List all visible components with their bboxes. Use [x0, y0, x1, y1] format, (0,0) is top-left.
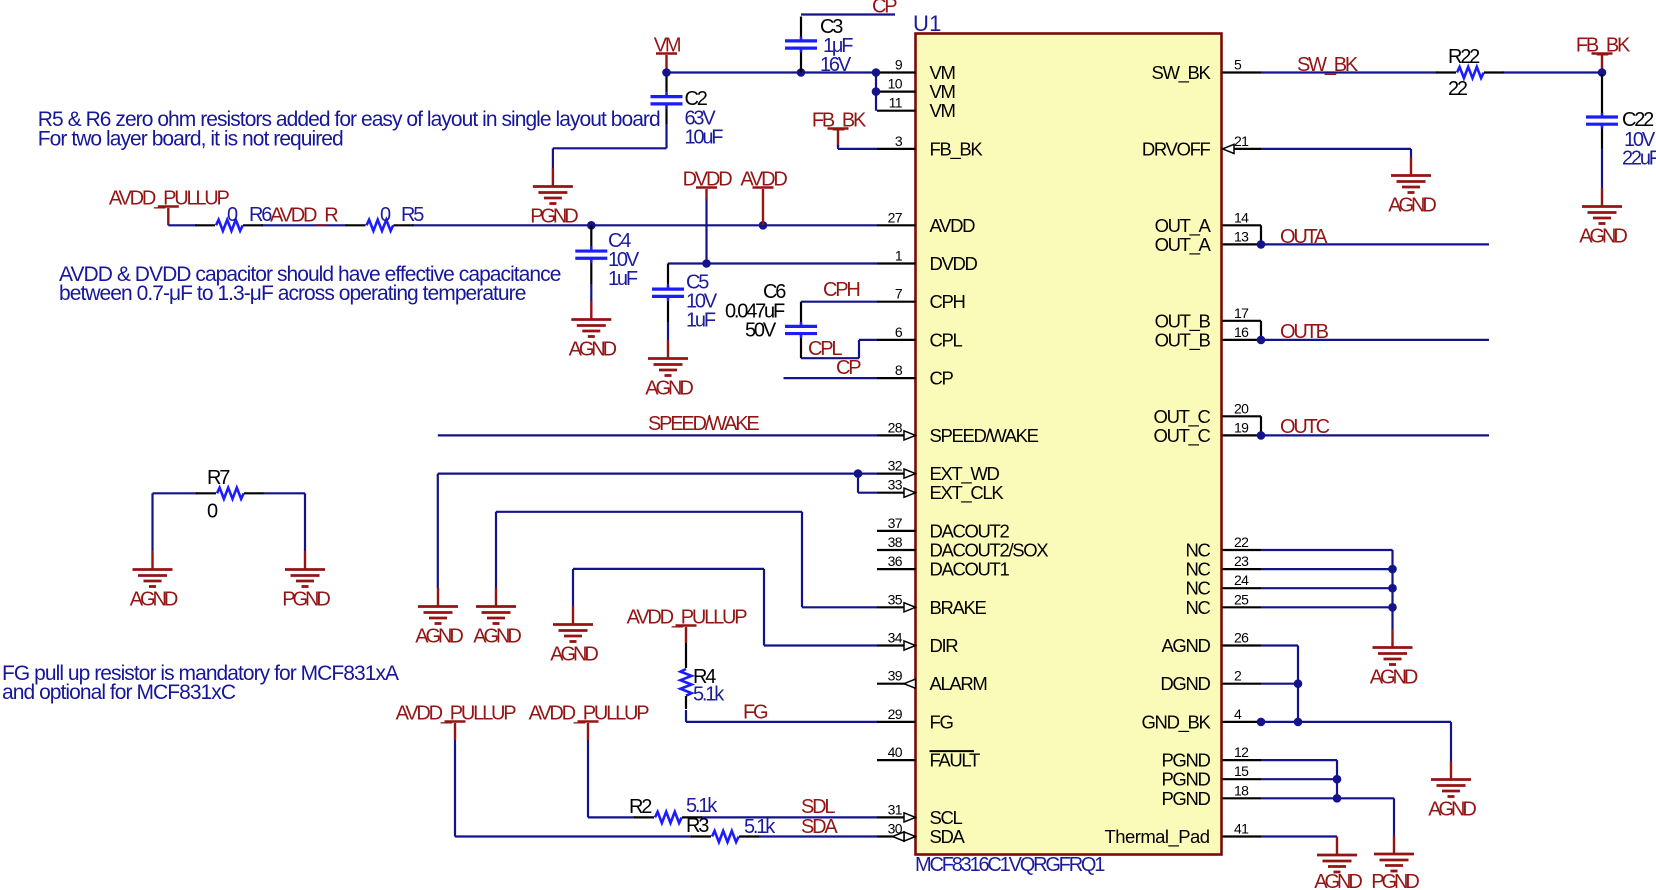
ground PGND (C2) [530, 168, 578, 228]
svg-text:AGND: AGND [130, 589, 178, 611]
wire Thermal_Pad [1261, 835, 1337, 837]
C4 labels [608, 230, 640, 290]
pin 19 OUT_C (right) [1154, 419, 1261, 447]
svg-text:CPL: CPL [930, 329, 963, 350]
svg-text:R5: R5 [401, 204, 424, 226]
wire SDA [455, 740, 877, 837]
svg-text:FAULT: FAULT [930, 750, 980, 771]
IC U1 MCF8316C1VQRGFRQ1 body [916, 34, 1222, 855]
pin 41 Thermal_Pad (right) [1104, 821, 1261, 849]
wire DVDD rail [668, 262, 877, 264]
svg-text:PGND: PGND [282, 589, 330, 611]
note AVDD/DVDD capacitor [59, 263, 561, 305]
svg-text:PGND: PGND [1161, 788, 1210, 809]
ground AGND (C22) [1579, 188, 1627, 248]
wire PGND bus [1261, 760, 1394, 835]
svg-text:5: 5 [1234, 57, 1242, 73]
R4 labels [693, 666, 725, 706]
svg-text:PGND: PGND [1161, 750, 1210, 771]
pin 1 DVDD (left) [877, 248, 978, 275]
svg-text:40: 40 [888, 744, 903, 760]
wire C5 to AGND [667, 322, 669, 340]
junction NC 25 [1388, 603, 1397, 612]
resistor R5 [346, 220, 414, 231]
svg-text:FB_BK: FB_BK [930, 138, 984, 160]
svg-text:0: 0 [380, 204, 391, 226]
junction PGND 18 [1333, 794, 1342, 803]
svg-text:R22: R22 [1448, 46, 1480, 68]
pin 29 FG (left) [877, 706, 953, 733]
pin 8 CP (left) [877, 362, 954, 389]
wire CPL route [801, 340, 877, 358]
svg-text:OUT_B: OUT_B [1155, 329, 1211, 351]
ground AGND (C4) [569, 301, 617, 361]
svg-text:11: 11 [889, 95, 903, 111]
svg-text:AGND: AGND [1161, 635, 1210, 656]
svg-text:AGND: AGND [550, 644, 598, 666]
wire SW_BK [1261, 71, 1602, 73]
svg-text:DACOUT2: DACOUT2 [930, 520, 1010, 541]
ground PGND (bottom) [1371, 836, 1419, 890]
svg-text:16V: 16V [820, 54, 852, 76]
svg-text:12: 12 [1234, 744, 1249, 760]
svg-text:AGND: AGND [1428, 799, 1476, 821]
wire FG [686, 721, 877, 723]
pin 16 OUT_B (right) [1155, 324, 1261, 352]
R7 labels [207, 467, 230, 523]
svg-text:10uF: 10uF [685, 127, 724, 149]
svg-text:PGND: PGND [1371, 871, 1419, 890]
svg-text:8: 8 [895, 362, 903, 378]
svg-text:SW_BK: SW_BK [1297, 54, 1359, 76]
pin 6 CPL (left) [877, 324, 962, 351]
junction GND_BK stub [1257, 718, 1266, 727]
pin 32 EXT_WD (left) [877, 458, 999, 486]
svg-text:22: 22 [1234, 534, 1249, 550]
svg-text:AVDD: AVDD [930, 215, 976, 236]
power symbol AVDD [740, 169, 787, 226]
C2 labels [685, 88, 724, 149]
pin 22 NC (right) [1185, 534, 1261, 561]
svg-text:CPH: CPH [823, 279, 859, 301]
power symbol VM [654, 35, 681, 73]
capacitor C22 [1586, 75, 1618, 149]
pin 2 DGND (right) [1160, 668, 1261, 695]
svg-text:4: 4 [1234, 706, 1242, 722]
svg-text:22uF: 22uF [1622, 148, 1656, 170]
C3 labels [820, 16, 853, 76]
pin 33 EXT_CLK (left) [877, 477, 1004, 505]
svg-text:31: 31 [888, 801, 903, 817]
svg-text:7: 7 [895, 286, 903, 302]
svg-text:VM: VM [930, 81, 955, 102]
svg-text:SDL: SDL [801, 796, 835, 818]
ground AGND (R7) [130, 551, 178, 611]
resistor R4 [680, 643, 691, 722]
wire NC bus [1261, 550, 1393, 629]
svg-text:6: 6 [895, 324, 903, 340]
note FG pull up [2, 662, 399, 704]
svg-text:BRAKE: BRAKE [930, 597, 987, 618]
svg-text:24: 24 [1234, 572, 1249, 588]
pin 20 OUT_C (right) [1154, 400, 1261, 428]
power symbol AVDD_PULLUP (top-left) [109, 188, 230, 226]
C22 labels [1622, 109, 1656, 170]
svg-text:CP: CP [872, 0, 897, 18]
wire OUTB [1261, 321, 1489, 340]
pin 3 FB_BK (left) [877, 133, 983, 161]
R5 labels [380, 204, 424, 226]
svg-text:21: 21 [1234, 133, 1249, 149]
svg-text:SDA: SDA [801, 816, 838, 838]
wire DIR [573, 569, 877, 646]
pin 14 OUT_A (right) [1155, 209, 1261, 237]
svg-text:2: 2 [1234, 668, 1242, 684]
junction VM/C3 [797, 68, 806, 77]
wire CP top [801, 13, 895, 15]
svg-text:OUT_C: OUT_C [1154, 425, 1211, 447]
ground AGND (C5) [645, 340, 693, 400]
svg-text:OUTC: OUTC [1280, 416, 1330, 438]
wire AVDD rail [168, 224, 877, 226]
wire BRAKE [496, 512, 877, 608]
capacitor C3 [785, 17, 817, 73]
pin 36 DACOUT1 (left) [877, 553, 1010, 580]
pin 39 ALARM (left) [877, 668, 987, 695]
junction NC 24 [1388, 584, 1397, 593]
svg-text:AGND: AGND [645, 378, 693, 400]
svg-text:ALARM: ALARM [930, 673, 987, 694]
svg-text:CPH: CPH [930, 291, 965, 312]
svg-text:AGND: AGND [1579, 226, 1627, 248]
svg-text:AGND: AGND [569, 339, 617, 361]
junction VM pin10 [872, 87, 881, 96]
svg-text:SPEED/WAKE: SPEED/WAKE [648, 413, 759, 435]
svg-text:29: 29 [888, 706, 903, 722]
power symbol FB_BK (right) [1576, 35, 1631, 73]
pin 7 CPH (left) [877, 286, 965, 313]
power symbol AVDD_PULLUP (SCL) [529, 703, 650, 741]
pin 37 DACOUT2 (left) [877, 515, 1010, 542]
svg-text:CP: CP [930, 368, 954, 389]
pin 35 BRAKE (left) [877, 591, 986, 618]
svg-text:36: 36 [888, 553, 903, 569]
svg-text:R3: R3 [686, 815, 709, 837]
svg-text:34: 34 [888, 630, 903, 646]
junction AVDD symbol [759, 221, 768, 230]
svg-text:50V: 50V [745, 320, 777, 342]
svg-text:1: 1 [895, 248, 903, 264]
svg-text:FG: FG [743, 702, 768, 724]
pin 23 NC (right) [1185, 553, 1261, 580]
pin 13 OUT_A (right) [1155, 228, 1261, 256]
svg-text:OUTA: OUTA [1280, 226, 1328, 248]
wire AGND/DGND/GND_BK bus [1261, 646, 1451, 762]
svg-text:28: 28 [888, 419, 903, 435]
svg-text:33: 33 [888, 477, 903, 493]
svg-text:25: 25 [1234, 591, 1249, 607]
ground AGND (NC) [1370, 629, 1418, 689]
svg-text:and optional for MCF831xC: and optional for MCF831xC [2, 681, 236, 704]
svg-text:NC: NC [1185, 597, 1210, 618]
pin 15 PGND (right) [1161, 763, 1261, 790]
capacitor C5 [652, 264, 684, 323]
junction DGND [1294, 679, 1303, 688]
junction VM/C2 [662, 68, 671, 77]
junction GND_BK bus [1294, 718, 1303, 727]
svg-text:R6: R6 [249, 204, 272, 226]
svg-text:OUTB: OUTB [1280, 321, 1329, 343]
svg-text:For two layer board, it is not: For two layer board, it is not required [38, 127, 343, 150]
svg-text:5.1k: 5.1k [744, 816, 776, 838]
wire C22 to AGND [1601, 149, 1603, 189]
svg-text:DACOUT2/SOX: DACOUT2/SOX [930, 540, 1049, 561]
power symbol FB_BK (left) [812, 110, 867, 147]
wire CP (pin8) [784, 377, 878, 379]
ground AGND (GND_BK) [1428, 761, 1476, 821]
svg-text:R7: R7 [207, 467, 230, 489]
resistor R2 [634, 812, 702, 823]
svg-text:SDA: SDA [930, 826, 966, 847]
note R5/R6 zero ohm [38, 108, 660, 150]
wire C4 to AGND [590, 284, 592, 301]
capacitor C6 [785, 302, 817, 359]
svg-text:0: 0 [207, 501, 218, 523]
svg-text:9: 9 [895, 57, 903, 73]
wire C2 to PGND [553, 124, 667, 168]
svg-text:27: 27 [888, 209, 903, 225]
junction VM pin9 [872, 68, 881, 77]
ground AGND (DIR) [550, 606, 598, 666]
svg-text:C22: C22 [1622, 109, 1654, 131]
resistor R7 [153, 488, 306, 499]
pin 27 AVDD (left) [877, 209, 975, 236]
svg-text:AGND: AGND [1388, 195, 1436, 217]
svg-text:AVDD_R: AVDD_R [270, 205, 338, 227]
pin 31 SCL (left) [877, 801, 962, 828]
pin 30 SDA (left) [877, 821, 965, 848]
wire SCL [588, 740, 877, 817]
svg-text:14: 14 [1234, 209, 1249, 225]
junction OUTC [1257, 431, 1266, 440]
pin 34 DIR (left) [877, 630, 958, 657]
svg-text:PGND: PGND [1161, 769, 1210, 790]
resistor R6 [195, 220, 263, 231]
svg-text:R2: R2 [629, 796, 652, 818]
svg-text:5.1k: 5.1k [693, 684, 725, 706]
resistor R3 [691, 831, 759, 842]
pin 28 SPEED/WAKE (left) [877, 419, 1039, 446]
power symbol AVDD_PULLUP (SDA) [396, 703, 517, 741]
junction NC 23 [1388, 565, 1397, 574]
R3 labels [686, 815, 776, 838]
pin 25 NC (right) [1185, 591, 1261, 618]
C5 labels [686, 272, 718, 332]
svg-text:VM: VM [930, 62, 955, 83]
C6 labels [725, 281, 786, 342]
svg-text:EXT_CLK: EXT_CLK [930, 482, 1005, 504]
svg-text:Thermal_Pad: Thermal_Pad [1104, 826, 1209, 848]
svg-text:23: 23 [1234, 553, 1249, 569]
R6 labels [227, 204, 272, 226]
wire VM rail [667, 73, 877, 111]
junction DVDD [702, 259, 711, 268]
svg-text:38: 38 [888, 534, 903, 550]
pin 9 VM (left) [877, 57, 955, 84]
svg-text:MCF8316C1VQRGFRQ1: MCF8316C1VQRGFRQ1 [915, 854, 1105, 876]
svg-text:41: 41 [1234, 821, 1249, 837]
capacitor C4 [575, 225, 607, 284]
svg-text:26: 26 [1234, 630, 1249, 646]
pin 24 NC (right) [1185, 572, 1261, 599]
svg-text:DIR: DIR [930, 635, 959, 656]
pin 12 PGND (right) [1161, 744, 1261, 771]
svg-text:37: 37 [888, 515, 903, 531]
svg-text:39: 39 [888, 668, 903, 684]
ground PGND (R7) [282, 551, 330, 611]
junction OUTA [1257, 240, 1266, 249]
wire EXT_WD [438, 474, 877, 588]
wire DRVOFF [1261, 149, 1411, 157]
svg-text:19: 19 [1234, 419, 1249, 435]
svg-text:3: 3 [895, 133, 903, 149]
svg-text:between 0.7-μF to 1.3-μF acros: between 0.7-μF to 1.3-μF across operatin… [59, 282, 526, 305]
svg-text:FG: FG [930, 711, 954, 732]
svg-text:VM: VM [930, 100, 955, 121]
svg-text:SPEED/WAKE: SPEED/WAKE [930, 425, 1039, 446]
svg-text:NC: NC [1185, 559, 1210, 580]
svg-text:5.1k: 5.1k [686, 795, 718, 817]
pin 26 AGND (right) [1161, 630, 1261, 657]
ground AGND (BRAKE) [473, 588, 521, 648]
R2 labels [629, 795, 718, 818]
junction FB_BK/C22 [1598, 68, 1607, 77]
power symbol AVDD_PULLUP (R4) [627, 607, 748, 644]
svg-text:DACOUT1: DACOUT1 [930, 559, 1010, 580]
pin 11 VM (left) [877, 95, 955, 122]
junction PGND 15 [1333, 775, 1342, 784]
svg-text:1uF: 1uF [608, 268, 638, 290]
svg-text:GND_BK: GND_BK [1142, 711, 1212, 733]
pin 18 PGND (right) [1161, 782, 1261, 809]
ground AGND (Thermal_Pad) [1314, 837, 1362, 890]
ground AGND (EXT_WD) [415, 588, 463, 648]
junction EXT_WD/EXT_CLK [854, 469, 863, 478]
svg-text:DVDD: DVDD [930, 253, 978, 274]
pin 40 FAULT (left) [877, 744, 980, 771]
wire CPH [801, 301, 877, 303]
svg-text:DGND: DGND [1160, 673, 1210, 694]
junction OUTB [1257, 336, 1266, 345]
pin 21 DRVOFF (right) [1142, 133, 1261, 160]
svg-text:U1: U1 [913, 11, 942, 36]
svg-text:AGND: AGND [1370, 667, 1418, 689]
svg-text:1uF: 1uF [686, 310, 716, 332]
svg-text:SW_BK: SW_BK [1151, 62, 1211, 84]
svg-text:13: 13 [1234, 228, 1249, 244]
svg-text:10: 10 [888, 76, 903, 92]
wire OUTC [1261, 416, 1489, 435]
svg-text:AGND: AGND [473, 626, 521, 648]
svg-text:AGND: AGND [1314, 871, 1362, 890]
wire R7 left leg [151, 493, 153, 551]
wire SPEED/WAKE [438, 434, 877, 436]
svg-text:SCL: SCL [930, 807, 963, 828]
junction AVDD/C4 [587, 221, 596, 230]
pin 4 GND_BK (right) [1142, 706, 1261, 734]
svg-text:18: 18 [1234, 782, 1249, 798]
pin 38 DACOUT2/SOX (left) [877, 534, 1048, 561]
resistor R22 [1436, 67, 1504, 78]
svg-text:OUT_A: OUT_A [1155, 234, 1212, 256]
svg-text:AGND: AGND [415, 626, 463, 648]
power symbol DVDD [683, 169, 733, 264]
svg-text:16: 16 [1234, 324, 1249, 340]
pin 17 OUT_B (right) [1155, 305, 1261, 333]
capacitor C2 [651, 77, 683, 125]
wire R7 right leg [304, 493, 306, 551]
pin 10 VM (left) [877, 76, 955, 103]
R22 labels [1448, 46, 1480, 100]
wire FB_BK to pin3 [838, 145, 877, 149]
svg-text:22: 22 [1448, 78, 1468, 100]
svg-text:NC: NC [1185, 540, 1210, 561]
svg-text:CP: CP [836, 357, 861, 379]
svg-text:15: 15 [1234, 763, 1249, 779]
svg-text:NC: NC [1185, 578, 1210, 599]
wire OUTA [1261, 225, 1489, 244]
svg-text:17: 17 [1234, 305, 1249, 321]
svg-text:DRVOFF: DRVOFF [1142, 138, 1211, 159]
svg-text:35: 35 [888, 591, 903, 607]
svg-text:20: 20 [1234, 400, 1249, 416]
pin 5 SW_BK (right) [1151, 57, 1261, 85]
svg-text:32: 32 [888, 458, 903, 474]
ground AGND (DRVOFF) [1388, 157, 1436, 217]
